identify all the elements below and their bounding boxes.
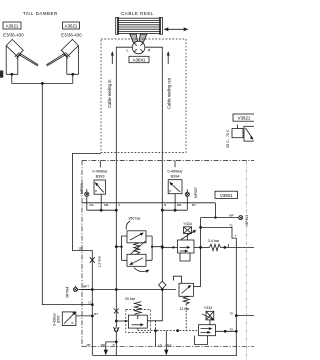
svg-text:55 C - 70 C: 55 C - 70 C bbox=[226, 129, 230, 148]
wire relief left connection bbox=[116, 236, 127, 260]
transducer B395 (rotated) bbox=[62, 312, 76, 326]
SECTION: solenoid valve Y334 bbox=[183, 222, 191, 226]
svg-text:R: R bbox=[148, 48, 151, 52]
svg-text:MP913: MP913 bbox=[245, 215, 249, 226]
wire out right bbox=[236, 315, 254, 317]
wire cylinder-left ports bbox=[6, 46, 18, 83]
cylinder right (tilted, mirrored) bbox=[46, 39, 78, 66]
svg-text:CABLE REEL: CABLE REEL bbox=[121, 11, 154, 16]
svg-text:Y333: Y333 bbox=[204, 306, 212, 310]
wire damper line down bbox=[42, 83, 93, 304]
svg-text:E3/36-430: E3/36-430 bbox=[61, 32, 82, 37]
spring 20bar bbox=[134, 302, 141, 315]
svg-text:MT: MT bbox=[87, 343, 91, 347]
svg-text:B393: B393 bbox=[96, 175, 105, 179]
wire gauge junction line B-side bbox=[162, 209, 187, 211]
svg-text:P: P bbox=[71, 322, 75, 324]
shuttle diamond bbox=[159, 281, 166, 289]
svg-text:LS: LS bbox=[158, 343, 162, 347]
SECTION: tank line right bbox=[93, 238, 236, 356]
label box V3601 bbox=[215, 191, 238, 198]
wire ports interface line bbox=[82, 202, 215, 204]
svg-text:350 bar: 350 bar bbox=[128, 217, 141, 221]
wire motor L to A-pipe bbox=[116, 47, 132, 321]
svg-text:TA: TA bbox=[230, 327, 234, 331]
spring 12bar bbox=[183, 296, 189, 304]
title CABLE REEL bbox=[121, 11, 154, 16]
svg-text:20 bar: 20 bar bbox=[125, 297, 136, 301]
svg-text:TA: TA bbox=[230, 312, 234, 316]
annotation arrow cable reeling out bbox=[167, 51, 170, 64]
drain loop Y333 bbox=[195, 336, 208, 345]
label 0-400bar B393 bbox=[92, 170, 108, 179]
svg-text:E3/36-430: E3/36-430 bbox=[3, 32, 24, 37]
annotation arrow cable reeling in bbox=[111, 51, 114, 64]
svg-text:A3621: A3621 bbox=[65, 23, 78, 28]
svg-text:L: L bbox=[126, 48, 128, 52]
test point MP934 bbox=[73, 286, 92, 292]
svg-text:B: B bbox=[164, 203, 166, 207]
svg-text:MT: MT bbox=[94, 312, 98, 316]
reel drum bbox=[116, 17, 163, 34]
wire stub from border bbox=[174, 161, 176, 168]
wire 12bar connections bbox=[194, 286, 201, 288]
arrow across spring bbox=[130, 241, 146, 255]
svg-text:V3621: V3621 bbox=[238, 116, 251, 121]
valve body Y333 bbox=[199, 325, 216, 336]
wire Y334 right with spring 3.4bar bbox=[194, 246, 210, 248]
valve body Y334 bbox=[178, 240, 195, 253]
label E3/36-430 (right) bbox=[61, 32, 82, 37]
wire B395 to block bbox=[76, 315, 92, 317]
wire T2 line bbox=[200, 218, 202, 287]
label box A3621 (left) bbox=[3, 22, 21, 29]
label E3/36-430 (left) bbox=[3, 32, 24, 37]
svg-text:12 bar: 12 bar bbox=[179, 307, 190, 311]
valve body 20bar bbox=[128, 315, 147, 328]
relief valve lower bbox=[127, 254, 146, 266]
wire cylinder-right ports bbox=[67, 46, 79, 83]
wire Y334 left to B-pipe bbox=[162, 246, 177, 248]
transducer B393 symbol bbox=[94, 180, 106, 194]
svg-text:MB: MB bbox=[177, 203, 181, 207]
svg-text:MLS: MLS bbox=[166, 343, 172, 347]
wire Y333 right to tank bbox=[216, 330, 237, 332]
SECTION: bottom ports bbox=[87, 343, 172, 347]
svg-text:T2: T2 bbox=[229, 223, 233, 227]
motor A3641 circle bbox=[132, 41, 145, 54]
reel mounts bbox=[130, 34, 138, 42]
svg-text:A3641: A3641 bbox=[133, 57, 146, 62]
test point MP937 bbox=[185, 189, 189, 210]
wire gauge junction line A-side bbox=[87, 209, 117, 211]
svg-text:B394: B394 bbox=[171, 175, 180, 179]
port label LB bbox=[79, 247, 83, 251]
wire damper bus bbox=[12, 82, 73, 84]
solenoid Y334 bbox=[181, 227, 196, 240]
svg-text:A: A bbox=[118, 203, 120, 207]
SECTION: orifice 1.2mm bbox=[90, 257, 95, 263]
svg-text:LT: LT bbox=[88, 300, 91, 304]
leader arc 350bar bbox=[126, 221, 130, 230]
dashed block bottom border bbox=[82, 346, 254, 348]
svg-text:MT: MT bbox=[192, 203, 196, 207]
port labels L R bbox=[126, 48, 150, 52]
label 0-400bar B394 bbox=[167, 170, 183, 179]
svg-text:MA: MA bbox=[89, 203, 93, 207]
svg-text:V3601: V3601 bbox=[220, 193, 233, 198]
svg-text:MP937: MP937 bbox=[194, 187, 198, 198]
wire bottom stubs bbox=[92, 331, 155, 356]
SECTION: LS pilot dashed line bbox=[138, 330, 199, 332]
test point MP936 bbox=[85, 189, 89, 210]
dashed block top border bbox=[82, 160, 254, 162]
svg-text:MP934: MP934 bbox=[66, 287, 70, 298]
junction damper bus center bbox=[41, 82, 44, 85]
svg-text:0-400bar: 0-400bar bbox=[167, 170, 183, 174]
svg-text:0-400bar: 0-400bar bbox=[92, 170, 108, 174]
transducer B394 symbol bbox=[168, 180, 182, 194]
wire B394 down bbox=[174, 194, 176, 211]
wire to 20bar valve bbox=[116, 320, 128, 322]
leader arc lower bbox=[134, 268, 148, 272]
orifice on A-line bbox=[114, 309, 119, 314]
dashed enclosure 20bar bbox=[126, 310, 151, 333]
thermal valve V3621 body bbox=[232, 125, 256, 142]
wire MP line bbox=[201, 217, 239, 219]
dashed reel enclosure bbox=[101, 39, 186, 153]
left edge mark bbox=[0, 71, 3, 78]
svg-text:MB: MB bbox=[104, 203, 108, 207]
junction bbox=[10, 73, 13, 76]
svg-text:TAIL DAMBER: TAIL DAMBER bbox=[23, 11, 58, 16]
wire LS horizontal bbox=[82, 289, 176, 291]
wire motor drain to LB bbox=[72, 154, 101, 289]
solenoid Y333 bbox=[202, 311, 215, 324]
port labels on interface bbox=[89, 203, 196, 207]
svg-text:Cable reeling out: Cable reeling out bbox=[167, 77, 172, 109]
test point MP913 bbox=[239, 216, 243, 220]
dashed block left border bbox=[81, 161, 83, 347]
svg-text:MP: MP bbox=[101, 343, 105, 347]
bottom arrow P bbox=[104, 348, 108, 356]
wire left vertical inner bbox=[91, 290, 93, 348]
wire stub from border bbox=[99, 161, 101, 168]
wire motor R to B-pipe bbox=[145, 47, 163, 281]
label box A3641 bbox=[129, 56, 149, 62]
svg-text:1.2 mm: 1.2 mm bbox=[98, 256, 102, 267]
title TAIL DAMPER bbox=[23, 11, 58, 16]
svg-text:MPT: MPT bbox=[83, 285, 89, 289]
svg-text:A3621: A3621 bbox=[6, 23, 19, 28]
faint right border bbox=[245, 161, 247, 360]
spring between reliefs bbox=[134, 243, 140, 254]
wire B393 down bbox=[100, 194, 102, 210]
junction bbox=[71, 73, 74, 76]
SECTION: 20 bar reducing valve bbox=[125, 297, 136, 301]
svg-text:MP936: MP936 bbox=[80, 183, 84, 194]
svg-text:B395: B395 bbox=[57, 315, 61, 323]
label 55C-70C bbox=[226, 129, 230, 148]
bottom arrow MLS bbox=[164, 347, 168, 355]
double arrow at drum bbox=[164, 27, 188, 31]
svg-text:Cable reeling in: Cable reeling in bbox=[107, 79, 112, 108]
cylinder left (tilted) bbox=[6, 39, 38, 66]
wire MP branch bbox=[106, 342, 117, 348]
valve body 12bar bbox=[174, 276, 194, 296]
pilot loop under Y334 bbox=[180, 253, 190, 261]
wire relief right connection bbox=[146, 236, 162, 260]
svg-text:P: P bbox=[113, 343, 115, 347]
wire LS down bbox=[147, 290, 162, 321]
spring 3.4 bar bbox=[210, 244, 225, 250]
label box A3621 (right) bbox=[63, 22, 80, 29]
svg-text:3.4 bar: 3.4 bar bbox=[208, 239, 220, 243]
relief valve upper bbox=[127, 231, 146, 243]
SECTION: solenoid valve Y333 bbox=[204, 306, 212, 310]
pilot from 20bar valve bottom bbox=[137, 328, 139, 331]
svg-text:MP: MP bbox=[229, 214, 233, 218]
check valve on P line bbox=[115, 321, 117, 342]
label box V3621 bbox=[233, 114, 256, 121]
svg-text:T: T bbox=[235, 234, 237, 238]
SECTION: 350 bar cross relief bbox=[128, 217, 141, 221]
svg-text:Y334: Y334 bbox=[183, 222, 191, 226]
